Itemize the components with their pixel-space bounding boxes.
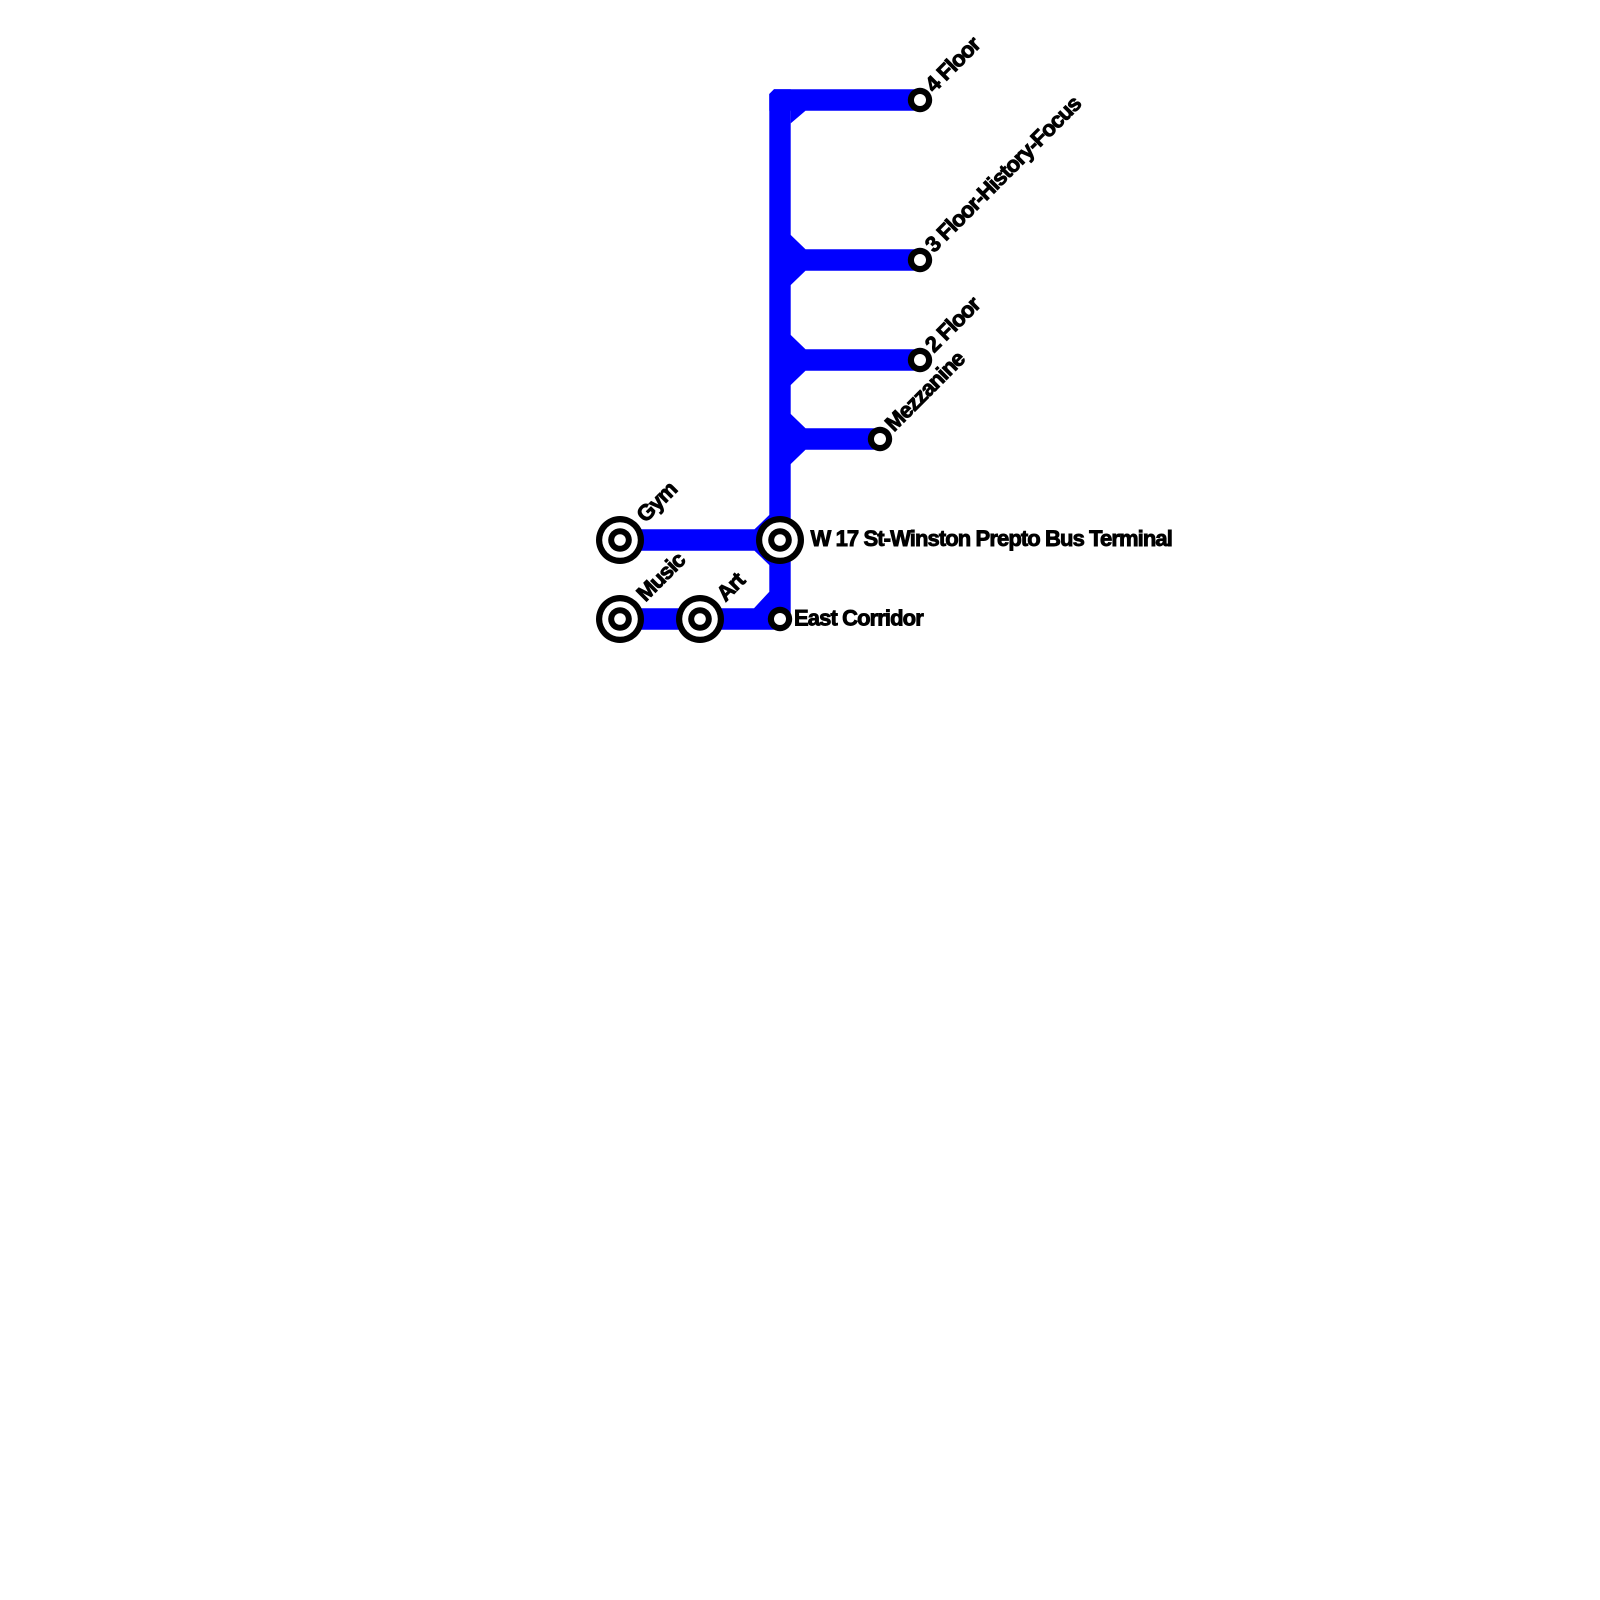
wire branch 2 Floor <box>790 334 920 385</box>
svg-text:W 17 St-Winston Prepto Bus Ter: W 17 St-Winston Prepto Bus Terminal <box>811 526 1172 551</box>
wire trunk vertical with corner to East Corridor <box>620 89 791 629</box>
interchange Art <box>676 595 724 643</box>
svg-text:Gym: Gym <box>631 476 682 527</box>
wire branch 4 Floor <box>769 89 920 123</box>
station Mezzanine <box>868 427 892 451</box>
interchange Gym <box>596 516 644 564</box>
wire branch Gym <box>620 514 770 565</box>
station 2 Floor <box>908 348 932 372</box>
svg-text:Music: Music <box>631 547 690 606</box>
station 3 Floor-History-Focus <box>908 248 932 272</box>
svg-text:4 Floor: 4 Floor <box>920 31 986 97</box>
svg-text:3 Floor-History-Focus: 3 Floor-History-Focus <box>920 91 1086 257</box>
svg-text:East Corridor: East Corridor <box>794 606 924 631</box>
wire branch 3 Floor-History-Focus <box>790 234 920 285</box>
interchange W 17 St-Winston Prepto Bus Terminal <box>756 516 804 564</box>
interchange Music <box>596 595 644 643</box>
wire branch Mezzanine <box>790 413 880 464</box>
station 4 Floor <box>908 88 932 112</box>
svg-text:2 Floor: 2 Floor <box>920 291 986 357</box>
station East Corridor <box>768 607 792 631</box>
svg-text:Art: Art <box>711 567 750 606</box>
